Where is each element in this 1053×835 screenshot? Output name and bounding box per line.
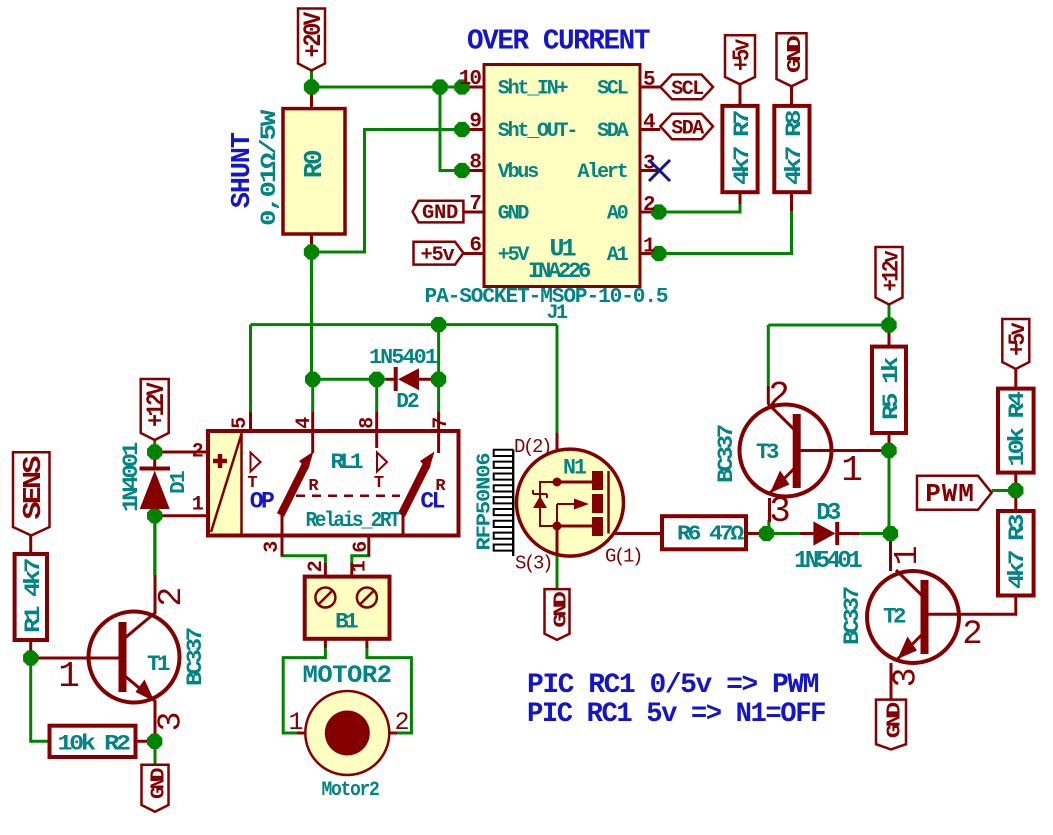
svg-text:A0: A0 bbox=[607, 203, 628, 226]
svg-text:6: 6 bbox=[469, 235, 481, 258]
power flag +20V bbox=[298, 9, 325, 71]
svg-text:GND: GND bbox=[883, 702, 905, 738]
svg-text:OVER CURRENT: OVER CURRENT bbox=[467, 25, 650, 58]
svg-text:T1: T1 bbox=[147, 652, 170, 677]
relay coil pin stubs bbox=[155, 451, 208, 454]
junction bbox=[369, 372, 384, 387]
svg-text:1: 1 bbox=[192, 494, 204, 517]
svg-text:1: 1 bbox=[349, 560, 372, 572]
wire R5 bottom to D3 node bbox=[888, 451, 891, 534]
wire relay pin 4 stub top bbox=[311, 379, 314, 411]
wire A1 to R8 bbox=[659, 210, 792, 254]
wire B1 pin1 to motor pin2 bbox=[367, 648, 412, 733]
svg-text:2: 2 bbox=[768, 376, 790, 417]
D2 pins bbox=[386, 378, 394, 381]
relay coil plus sign bbox=[213, 459, 227, 464]
svg-text:T: T bbox=[374, 474, 384, 493]
svg-text:1: 1 bbox=[889, 546, 926, 566]
svg-text:PWM: PWM bbox=[925, 479, 975, 509]
B1 screw terminal 2 bbox=[357, 588, 377, 608]
wire +20V flag to top rail bbox=[310, 70, 313, 87]
svg-text:+12v: +12v bbox=[878, 250, 904, 291]
B1 top pin stubs bbox=[324, 563, 327, 577]
global label GND at U1 pin 7 bbox=[413, 201, 464, 223]
T3 emitter pin bbox=[768, 498, 771, 522]
wire R1 bottom junction to R2 bbox=[31, 658, 50, 741]
svg-text:7: 7 bbox=[430, 418, 453, 429]
svg-text:Alert: Alert bbox=[577, 161, 627, 184]
svg-text:+5v: +5v bbox=[1005, 322, 1031, 356]
resistor R3 bbox=[998, 511, 1034, 596]
wire top rail to U1 pin 10 bbox=[312, 86, 463, 89]
svg-text:2: 2 bbox=[153, 587, 190, 607]
global label SCL bbox=[660, 75, 713, 100]
svg-text:1N5401: 1N5401 bbox=[794, 548, 862, 575]
svg-text:OP: OP bbox=[250, 489, 274, 515]
svg-text:GND: GND bbox=[550, 591, 571, 627]
svg-text:1N4001: 1N4001 bbox=[119, 442, 144, 512]
svg-text:+5V: +5V bbox=[498, 244, 530, 267]
junction bbox=[454, 122, 469, 137]
wire relay pin3 to B1 pin2 bbox=[282, 555, 325, 564]
svg-text:4: 4 bbox=[293, 417, 316, 429]
R4 pins bbox=[1014, 369, 1017, 389]
svg-text:R1 4k7: R1 4k7 bbox=[21, 559, 46, 633]
power flag +12v above R5 bbox=[876, 247, 903, 305]
wire A0 to R7 bbox=[659, 203, 740, 212]
diode D1 1N4001 bbox=[140, 467, 171, 471]
wire T1 emitter junction to GND flag bbox=[154, 741, 157, 765]
svg-text:8: 8 bbox=[357, 418, 380, 429]
junction bbox=[881, 443, 896, 458]
N1 drain pin bbox=[556, 432, 559, 482]
svg-text:GND: GND bbox=[498, 203, 530, 226]
junction bbox=[454, 79, 469, 94]
R8 pins bbox=[790, 86, 793, 106]
svg-text:GND: GND bbox=[147, 768, 169, 799]
global label SDA bbox=[660, 114, 713, 140]
svg-text:T2: T2 bbox=[883, 605, 905, 630]
wire D3 cathode to T2 collector node bbox=[859, 532, 891, 535]
B1 screw terminal 1 bbox=[315, 588, 335, 608]
svg-text:4: 4 bbox=[643, 112, 655, 135]
wire T3 collector drop bbox=[767, 325, 770, 386]
global label SENS bbox=[13, 452, 50, 535]
relay top pin stubs bbox=[249, 412, 252, 431]
relay bottom pin stubs bbox=[281, 536, 284, 556]
junction bbox=[147, 734, 162, 749]
svg-text:3: 3 bbox=[261, 542, 284, 553]
svg-text:R0: R0 bbox=[299, 150, 329, 178]
svg-text:1N5401: 1N5401 bbox=[369, 347, 437, 370]
svg-text:2: 2 bbox=[305, 561, 328, 572]
wire T3 emitter to R6 node bbox=[767, 520, 770, 534]
relay coil bbox=[210, 433, 242, 534]
svg-text:PIC RC1 0/5v => PWM: PIC RC1 0/5v => PWM bbox=[527, 670, 819, 701]
svg-text:BC337: BC337 bbox=[840, 587, 865, 645]
R3 pins bbox=[1014, 491, 1017, 512]
svg-text:1: 1 bbox=[841, 450, 863, 491]
junction bbox=[759, 526, 774, 541]
R2 right pin bbox=[136, 740, 155, 743]
svg-text:Relais_2RT: Relais_2RT bbox=[306, 510, 401, 533]
svg-text:RL1: RL1 bbox=[331, 450, 364, 475]
svg-text:1: 1 bbox=[288, 708, 303, 737]
svg-text:3: 3 bbox=[769, 491, 791, 532]
power flag +5v above R4 bbox=[1002, 319, 1029, 369]
wire PWM label to R4/R3 node bbox=[992, 489, 1016, 492]
svg-text:+5v: +5v bbox=[421, 244, 455, 267]
svg-text:SDA: SDA bbox=[671, 118, 704, 141]
svg-text:1: 1 bbox=[643, 236, 655, 259]
svg-text:+5v: +5v bbox=[729, 39, 756, 71]
wire R6 to D3 anode bbox=[767, 532, 801, 535]
junction bbox=[1008, 483, 1023, 498]
svg-text:0,01Ω/5W: 0,01Ω/5W bbox=[257, 109, 282, 226]
svg-text:4k7 R3: 4k7 R3 bbox=[1005, 514, 1030, 589]
svg-text:4k7 R8: 4k7 R8 bbox=[782, 110, 807, 185]
relay mechanical dashed link bbox=[296, 494, 400, 497]
T2 emitter pin bbox=[890, 663, 893, 700]
global label PWM bbox=[917, 476, 992, 510]
svg-text:2: 2 bbox=[643, 194, 655, 217]
svg-text:B1: B1 bbox=[335, 610, 358, 635]
U1 pin stubs right bbox=[640, 86, 660, 89]
junction bbox=[454, 163, 469, 178]
svg-text:6: 6 bbox=[350, 542, 373, 553]
svg-text:BC337: BC337 bbox=[183, 628, 208, 686]
transistor T3 BC337 bbox=[740, 405, 832, 497]
svg-text:5: 5 bbox=[643, 69, 655, 92]
svg-text:GND: GND bbox=[784, 36, 806, 73]
R1 bottom pin bbox=[29, 640, 32, 658]
T3 base pin bbox=[832, 449, 889, 452]
svg-text:D2: D2 bbox=[396, 391, 419, 414]
connector B1 bbox=[305, 577, 390, 639]
svg-text:SCL: SCL bbox=[597, 78, 628, 101]
svg-text:Motor2: Motor2 bbox=[322, 779, 379, 802]
wire horizontal bus y=324 bbox=[251, 323, 558, 326]
T1 base pin bbox=[31, 657, 89, 660]
svg-text:D3: D3 bbox=[816, 500, 841, 527]
IC U1 INA226 body bbox=[484, 65, 640, 287]
U1 pin stubs left bbox=[462, 86, 484, 89]
N1 heatsink bbox=[512, 450, 514, 557]
svg-text:2: 2 bbox=[962, 616, 982, 654]
svg-text:10k R4: 10k R4 bbox=[1005, 391, 1030, 466]
R7 pins bbox=[739, 84, 742, 106]
power flag +12V bbox=[141, 379, 169, 440]
svg-text:BC337: BC337 bbox=[714, 425, 739, 483]
svg-text:A1: A1 bbox=[607, 244, 629, 267]
R0 pins bbox=[310, 87, 313, 109]
R5 pins bbox=[888, 325, 891, 347]
svg-text:+12V: +12V bbox=[142, 382, 171, 427]
wire +12v flag stub bbox=[888, 305, 891, 326]
svg-text:RFP50N06: RFP50N06 bbox=[473, 453, 495, 551]
svg-text:2: 2 bbox=[192, 441, 203, 464]
svg-text:D1: D1 bbox=[168, 471, 191, 494]
relay contact blade pins 7-6 bbox=[402, 464, 428, 515]
no-connect X on Alert pin bbox=[649, 160, 670, 181]
junction bbox=[651, 246, 666, 261]
wire relay pin 8 stub top bbox=[375, 379, 378, 411]
resistor R0 shunt bbox=[283, 109, 345, 234]
junction bbox=[432, 79, 447, 94]
power flag GND below N1 source bbox=[545, 589, 570, 640]
D3 pins bbox=[800, 532, 813, 535]
wire N1 source to GND flag bbox=[556, 556, 559, 589]
resistor R4 bbox=[998, 389, 1034, 473]
power flag GND below R2 bbox=[142, 765, 169, 812]
diode D2 1N5401 bbox=[394, 367, 398, 391]
svg-text:D(2): D(2) bbox=[514, 436, 550, 458]
wire junction to Vbus branch bbox=[440, 87, 462, 171]
relay contact T2 triangle pin8 bbox=[377, 453, 387, 472]
wire junction down to relay pin 7 bbox=[437, 325, 440, 412]
resistor R6 bbox=[662, 516, 746, 549]
diode D3 1N5401 bbox=[813, 521, 835, 545]
B1 bottom pin stubs bbox=[324, 639, 327, 648]
wire D1 bottom to T1 collector bbox=[153, 516, 156, 575]
resistor R8 bbox=[774, 106, 809, 192]
motor M symbol bbox=[305, 691, 389, 775]
resistor R1 bbox=[15, 554, 47, 640]
motor pin stubs bbox=[297, 732, 306, 735]
wire B1 pin2 to motor pin1 bbox=[283, 648, 325, 733]
transistor T2 BC337 bbox=[867, 571, 959, 663]
resistor R7 bbox=[722, 106, 757, 192]
svg-text:SHUNT: SHUNT bbox=[228, 132, 258, 208]
wire D2 row bbox=[313, 378, 386, 381]
resistor R2 bbox=[50, 726, 136, 757]
N1 internal structure bbox=[557, 481, 592, 484]
junction bbox=[147, 444, 162, 459]
svg-text:T3: T3 bbox=[756, 440, 779, 465]
svg-text:3: 3 bbox=[153, 712, 190, 732]
transistor T1 BC337 bbox=[89, 612, 180, 703]
svg-text:INA226: INA226 bbox=[528, 259, 590, 284]
junction bbox=[651, 204, 666, 219]
wire +12V flag to D1 bbox=[153, 440, 156, 452]
svg-text:PIC RC1 5v => N1=OFF: PIC RC1 5v => N1=OFF bbox=[527, 699, 826, 730]
power flag GND below T2 bbox=[876, 700, 906, 750]
D1 pins bbox=[153, 452, 156, 467]
svg-text:9: 9 bbox=[469, 111, 481, 134]
T1 collector pin bbox=[154, 575, 157, 612]
svg-text:4k7 R7: 4k7 R7 bbox=[730, 111, 755, 185]
svg-text:1: 1 bbox=[58, 656, 80, 697]
SENS to R1 pin bbox=[29, 535, 32, 554]
junction bbox=[304, 244, 319, 259]
svg-text:3: 3 bbox=[888, 668, 925, 688]
svg-text:7: 7 bbox=[469, 193, 481, 216]
svg-text:MOTOR2: MOTOR2 bbox=[303, 661, 392, 690]
svg-text:SENS: SENS bbox=[18, 456, 48, 519]
svg-text:R5 1k: R5 1k bbox=[879, 357, 904, 420]
wire R0 bottom down to relay bus bbox=[310, 252, 313, 379]
svg-text:S(3): S(3) bbox=[515, 553, 551, 575]
wire T1 collector green segment bbox=[154, 516, 157, 575]
svg-text:G(1): G(1) bbox=[605, 546, 641, 568]
svg-text:10k R2: 10k R2 bbox=[58, 732, 130, 757]
T3 collector pin bbox=[767, 386, 770, 405]
svg-text:8: 8 bbox=[469, 152, 481, 175]
junction bbox=[431, 317, 446, 332]
global label +5v at U1 pin 6 bbox=[414, 242, 464, 265]
relay contact T1 triangle pin5 bbox=[251, 453, 261, 472]
wire Sht_OUT- to R0 bottom bbox=[312, 130, 463, 253]
svg-text:SCL: SCL bbox=[671, 78, 703, 101]
svg-text:J1: J1 bbox=[546, 302, 568, 325]
wire bus to N1 drain bbox=[556, 325, 559, 433]
junction bbox=[147, 508, 162, 523]
wire bus left corner down to relay pin 5 bbox=[249, 325, 252, 412]
T2 collector pin bbox=[889, 534, 892, 572]
MOSFET N1 RFP50N06 body bbox=[517, 449, 624, 556]
svg-text:Sht_OUT-: Sht_OUT- bbox=[498, 120, 576, 143]
wire +12v rail to T3 collector bbox=[768, 324, 889, 327]
junction bbox=[431, 372, 446, 387]
svg-text:N1: N1 bbox=[563, 456, 587, 481]
svg-text:SDA: SDA bbox=[597, 120, 629, 143]
junction bbox=[304, 79, 319, 94]
svg-text:10: 10 bbox=[459, 68, 482, 91]
junction bbox=[305, 372, 320, 387]
wire relay pin6 to B1 pin1 bbox=[352, 555, 369, 564]
svg-text:2: 2 bbox=[394, 708, 409, 737]
relay contact blade pins 4-3 bbox=[281, 464, 307, 515]
power flag GND above R8 bbox=[777, 33, 807, 86]
resistor R5 bbox=[872, 347, 906, 433]
junction bbox=[881, 317, 896, 332]
svg-text:Vbus: Vbus bbox=[498, 161, 538, 184]
svg-text:5: 5 bbox=[229, 418, 252, 429]
R6 right pin bbox=[746, 532, 767, 535]
N1 gate pin to R6 bbox=[609, 532, 663, 535]
svg-text:+20V: +20V bbox=[299, 12, 328, 58]
svg-text:R6 47Ω: R6 47Ω bbox=[677, 524, 745, 547]
power flag +5v above R7 bbox=[725, 35, 755, 84]
T1 emitter pin bbox=[154, 702, 157, 741]
relay RL1 body bbox=[208, 431, 459, 536]
junction bbox=[23, 650, 38, 665]
svg-text:GND: GND bbox=[422, 202, 458, 225]
svg-text:Sht_IN+: Sht_IN+ bbox=[498, 78, 569, 101]
junction bbox=[883, 526, 898, 541]
